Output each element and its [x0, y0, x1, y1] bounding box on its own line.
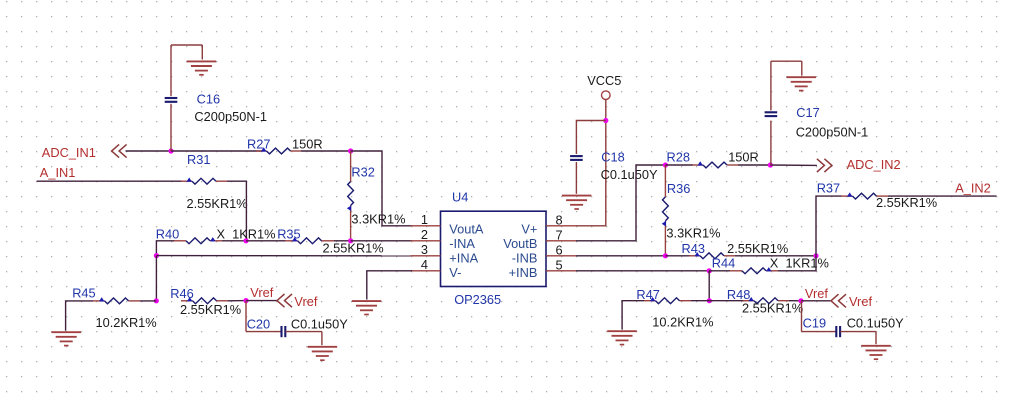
svg-text:150R: 150R	[292, 136, 323, 151]
svg-text:10.2KR1%: 10.2KR1%	[652, 314, 713, 329]
svg-text:C200p50N-1: C200p50N-1	[194, 109, 267, 124]
node Vref/C19 junction	[798, 298, 803, 303]
svg-text:R45: R45	[72, 286, 95, 301]
wire node to R35	[246, 240, 286, 242]
wire VCC5 node to C18	[576, 121, 605, 155]
wire R35 to R32 bottom node	[334, 240, 351, 242]
resistor R48	[743, 297, 789, 304]
svg-text:8: 8	[556, 212, 563, 227]
resistor R32	[347, 151, 354, 241]
svg-text:ADC_IN1: ADC_IN1	[42, 145, 96, 160]
resistor R37	[841, 192, 888, 199]
svg-text:R35: R35	[277, 227, 300, 242]
wire U4 pin5 to R44 node	[576, 270, 709, 272]
svg-text:2.55KR1%: 2.55KR1%	[187, 196, 248, 211]
wire C16 node to R27	[171, 150, 262, 152]
svg-text:VCC5: VCC5	[587, 73, 621, 88]
svg-text:ADC_IN2: ADC_IN2	[847, 157, 901, 172]
resistor R47	[644, 297, 691, 304]
power VCC5 symbol	[602, 91, 611, 100]
resistor R46	[181, 297, 228, 304]
wire R40 to node	[222, 240, 246, 242]
wire R28 to C17 node	[738, 164, 770, 166]
svg-text:+INB: +INB	[509, 265, 538, 280]
pin 5 stub +INB	[546, 270, 576, 272]
svg-text:A_IN1: A_IN1	[40, 165, 76, 180]
ground at C17	[787, 77, 817, 90]
wire R31 to R40/R35 node	[227, 181, 246, 241]
svg-text:VoutA: VoutA	[449, 221, 484, 236]
resistor R31	[181, 178, 227, 185]
wire node to R28	[665, 164, 693, 166]
port ADC_IN1 chevron	[112, 144, 127, 157]
svg-text:2.55KR1%: 2.55KR1%	[876, 195, 937, 210]
wire R48 node to resistor	[709, 300, 744, 302]
node R45/R46 junction	[154, 298, 159, 303]
svg-text:+INA: +INA	[449, 251, 478, 266]
ground at R45	[52, 332, 82, 345]
svg-text:C18: C18	[601, 150, 624, 165]
resistor R36	[662, 165, 669, 256]
svg-text:R40: R40	[156, 227, 179, 242]
wire R46 to Vref node	[228, 300, 246, 302]
node R32 bottom / U4 pin2 junction	[348, 238, 353, 243]
svg-text:R31: R31	[187, 152, 210, 167]
svg-text:C0.1u50Y: C0.1u50Y	[291, 316, 348, 331]
wire VCC5 down to pin8	[576, 100, 606, 226]
ground at C20	[308, 347, 338, 360]
svg-text:C0.1u50Y: C0.1u50Y	[601, 167, 658, 182]
svg-text:R37: R37	[817, 181, 840, 196]
svg-text:C16: C16	[197, 91, 220, 106]
svg-text:Vref: Vref	[294, 294, 317, 309]
svg-text:R46: R46	[170, 286, 193, 301]
svg-text:4: 4	[421, 257, 428, 272]
svg-text:V+: V+	[521, 221, 537, 236]
resistor R43	[689, 252, 735, 259]
resistor R27	[256, 147, 301, 154]
svg-text:2.55KR1%: 2.55KR1%	[180, 302, 241, 317]
ground at C18	[562, 196, 592, 209]
wire R37 to A_IN2	[888, 195, 997, 197]
svg-text:X 1KR1%: X 1KR1%	[770, 256, 829, 271]
wire Vref node to port	[246, 300, 278, 302]
wire U4 pin6 to R36 bottom node	[576, 255, 665, 257]
wire ADC_IN1 chevron to C16 node	[126, 150, 172, 152]
svg-text:6: 6	[556, 242, 563, 257]
svg-text:C20: C20	[247, 316, 270, 331]
wire R48 to Vref node	[789, 300, 801, 302]
pin 1 stub VoutA	[411, 225, 441, 227]
wire down to R45/R46 node	[155, 256, 157, 301]
wire node to ADC_IN2 port	[770, 164, 817, 166]
svg-text:Vref: Vref	[849, 294, 872, 309]
node C17/ADC_IN2 junction	[768, 162, 773, 167]
node R37/R43/R44 junction	[813, 253, 818, 258]
svg-text:1: 1	[421, 212, 428, 227]
svg-text:2: 2	[421, 227, 428, 242]
wire R43 to R37 node	[735, 255, 816, 257]
pin 6 stub -INB	[546, 255, 576, 257]
wire R45 to ground	[66, 301, 93, 331]
svg-text:C0.1u50Y: C0.1u50Y	[847, 316, 904, 331]
node VCC5/C18 junction	[603, 118, 608, 123]
svg-text:-INA: -INA	[449, 236, 475, 251]
capacitor C19	[802, 301, 877, 344]
svg-text:R47: R47	[636, 287, 659, 302]
svg-text:-INB: -INB	[512, 251, 538, 266]
wire node to R43	[665, 255, 690, 257]
pin 8 stub V+	[546, 225, 576, 227]
svg-text:5: 5	[556, 257, 563, 272]
svg-text:10.2KR1%: 10.2KR1%	[96, 315, 157, 330]
svg-text:C19: C19	[803, 316, 826, 331]
svg-text:R28: R28	[667, 150, 690, 165]
node Vref/C20 junction	[243, 298, 248, 303]
svg-text:C200p50N-1: C200p50N-1	[796, 124, 869, 139]
svg-text:2.55KR1%: 2.55KR1%	[742, 301, 803, 316]
node R32 top junction	[348, 148, 353, 153]
wire node up to R37 row	[816, 196, 842, 256]
node R28/R36 junction	[663, 162, 668, 167]
wire pin2 of U4	[351, 240, 412, 242]
resistor R40	[174, 237, 222, 244]
resistor R45	[93, 297, 140, 304]
svg-text:3.3KR1%: 3.3KR1%	[351, 211, 405, 226]
svg-text:2.55KR1%: 2.55KR1%	[323, 241, 384, 256]
op-amp U4 body	[441, 211, 547, 286]
wire node to R44	[709, 270, 730, 272]
wire R40 corner	[156, 241, 175, 256]
wire R47 to ground	[622, 301, 644, 330]
resistor R28	[692, 161, 738, 168]
capacitor C18	[570, 156, 583, 194]
node pin3 wire upper junction	[154, 253, 159, 258]
svg-text:150R: 150R	[728, 150, 759, 165]
ground at U4 pin4	[352, 301, 381, 314]
resistor R35	[285, 237, 334, 244]
svg-text:7: 7	[556, 227, 563, 242]
svg-text:R36: R36	[667, 181, 690, 196]
port Vref chevron left	[277, 294, 292, 307]
node R47/R48 junction	[707, 298, 712, 303]
port Vref chevron right	[831, 294, 846, 307]
capacitor C16	[165, 45, 203, 151]
svg-text:R48: R48	[727, 287, 750, 302]
node R36/R43 junction	[663, 253, 668, 258]
wire U4 pin4 to ground	[367, 271, 412, 300]
ground at C19	[861, 346, 891, 359]
svg-text:V-: V-	[449, 265, 461, 280]
svg-text:VoutB: VoutB	[503, 236, 537, 251]
wire R45 node to R46	[140, 300, 156, 302]
node C16/ADC_IN1 junction	[168, 148, 173, 153]
svg-text:R44: R44	[712, 256, 735, 271]
capacitor C17	[765, 61, 802, 165]
ground at C16	[187, 61, 217, 74]
svg-text:R27: R27	[247, 136, 270, 151]
pin 7 stub VoutB	[546, 240, 576, 242]
wire A_IN1 to R31	[37, 180, 182, 182]
wire R27 to R32 node	[301, 150, 351, 152]
svg-text:U4: U4	[452, 189, 468, 204]
node R31/R40/R35 junction	[243, 238, 248, 243]
svg-text:R43: R43	[682, 241, 705, 256]
node R44/R48 junction	[707, 268, 712, 273]
svg-text:3.3KR1%: 3.3KR1%	[666, 226, 720, 241]
pin 4 stub V-	[411, 270, 441, 272]
ground at R47	[607, 331, 637, 344]
wire U4 pin3 long net	[156, 255, 412, 257]
svg-text:C17: C17	[796, 105, 819, 120]
resistor R44	[730, 267, 778, 274]
wire R47 node to R48	[691, 300, 709, 302]
svg-text:Vref: Vref	[250, 285, 273, 300]
svg-text:OP2365: OP2365	[454, 292, 501, 307]
svg-text:R32: R32	[351, 164, 374, 179]
svg-text:2.55KR1%: 2.55KR1%	[727, 241, 788, 256]
wire Vref node to port	[801, 300, 832, 302]
wire R32 node to U4 pin1	[351, 151, 412, 226]
svg-text:A_IN2: A_IN2	[955, 181, 991, 196]
capacitor C20	[246, 301, 322, 346]
port ADC_IN2 chevron	[817, 159, 832, 172]
wire U4 pin7 to R28 node	[576, 165, 665, 241]
svg-text:3: 3	[421, 242, 428, 257]
wire R44 node down to R48 row	[708, 271, 710, 301]
wire node down to R44	[778, 256, 816, 271]
svg-text:Vref: Vref	[805, 286, 828, 301]
pin 3 stub +INA	[411, 255, 441, 257]
pin 2 stub -INA	[411, 240, 441, 242]
